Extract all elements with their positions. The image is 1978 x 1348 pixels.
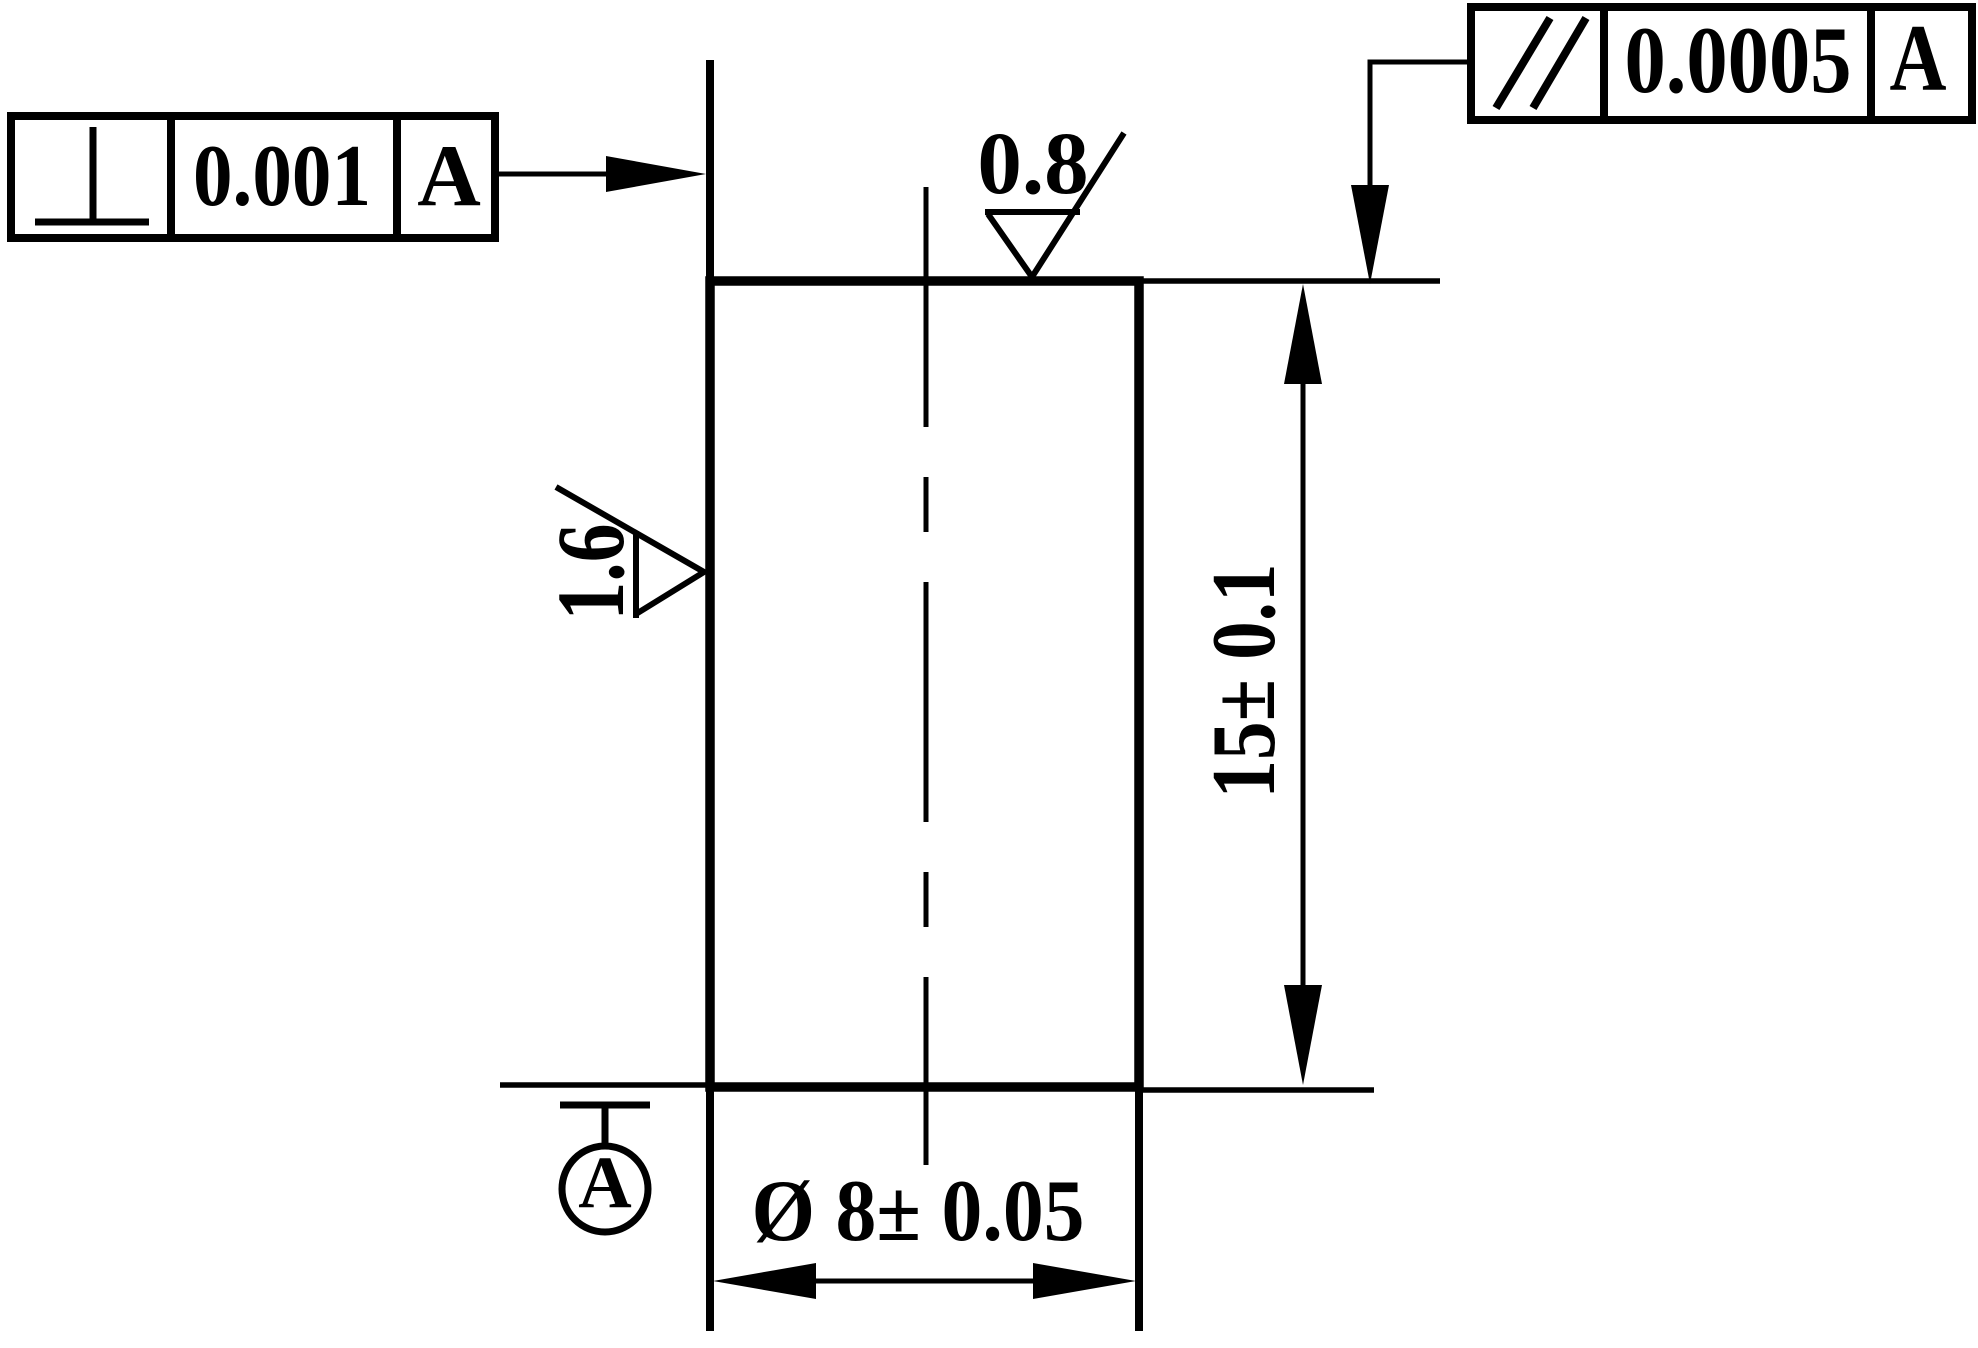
svg-text:1.6: 1.6 <box>537 524 644 621</box>
bottom extension line to the right <box>1139 1087 1374 1093</box>
svg-text:0.8: 0.8 <box>977 115 1088 213</box>
svg-text:0.0005: 0.0005 <box>1625 7 1852 113</box>
leader from FCF2 to top surface <box>1351 62 1471 284</box>
svg-text:Ø 8± 0.05: Ø 8± 0.05 <box>752 1163 1085 1260</box>
feature control frame FCF2 (parallelism 0.0005 A) <box>1471 7 1972 120</box>
right extension line below part <box>1135 1087 1143 1331</box>
datum feature symbol A <box>560 1105 650 1232</box>
part outline rectangle <box>710 281 1139 1087</box>
svg-text:A: A <box>578 1142 631 1224</box>
horizontal dimension line dia 8 +/- 0.05 <box>713 1263 1136 1299</box>
left extension line <box>706 60 714 1331</box>
svg-text:A: A <box>1890 5 1947 111</box>
svg-text:A: A <box>417 128 481 225</box>
vertical dimension line 15 +/- 0.1 <box>1284 284 1322 1085</box>
parallelism symbol <box>1496 18 1586 108</box>
svg-text:15± 0.1: 15± 0.1 <box>1193 564 1294 799</box>
bottom extension line to the left <box>500 1082 710 1088</box>
centerline (axis) <box>924 187 929 1165</box>
surface roughness 1.6 on left surface <box>537 487 704 621</box>
leader arrow from FCF1 to left surface <box>495 156 706 192</box>
surface roughness 0.8 on top surface <box>977 115 1124 277</box>
feature control frame FCF1 (perpendicularity 0.001 A) <box>11 116 495 238</box>
perpendicularity symbol <box>35 127 149 222</box>
top extension line to the right <box>1139 278 1440 284</box>
svg-text:0.001: 0.001 <box>193 128 371 225</box>
